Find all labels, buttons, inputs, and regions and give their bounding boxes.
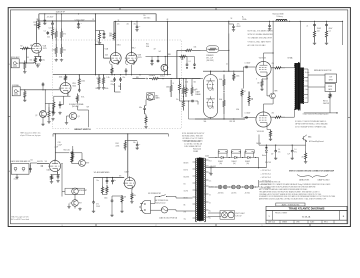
svg-text:100k: 100k: [236, 76, 240, 78]
ground R8: [23, 99, 26, 102]
svg-text:250p: 250p: [111, 81, 114, 83]
node bus2 junctions: [115, 21, 116, 22]
bias cell 2: [229, 186, 243, 188]
svg-text:2: 2: [156, 225, 157, 227]
capacitor C41 filter: [291, 145, 293, 150]
wire bias feed: [209, 186, 217, 188]
svg-text:100n: 100n: [104, 198, 108, 200]
resistor R4: [55, 29, 57, 41]
svg-text:220k: 220k: [116, 145, 120, 147]
svg-text:R51 100k: R51 100k: [64, 150, 70, 152]
svg-text:22n: 22n: [176, 99, 179, 101]
wire input ch1: [20, 62, 35, 64]
bias cell 3: [243, 186, 256, 188]
svg-text:820 1W: 820 1W: [230, 121, 236, 123]
svg-text:0.1 600V: 0.1 600V: [245, 63, 251, 65]
svg-text:TREBLE: TREBLE: [149, 75, 156, 77]
wire bus2 riser: [113, 21, 115, 31]
svg-text:100k: 100k: [134, 55, 137, 57]
svg-text:20u: 20u: [302, 157, 305, 159]
svg-text:415 VDC: 415 VDC: [210, 166, 217, 168]
svg-text:47k: 47k: [63, 34, 66, 36]
svg-text:CHOKE: CHOKE: [256, 143, 261, 145]
ground snubber1: [313, 42, 316, 45]
svg-text:R40: R40: [146, 44, 149, 46]
svg-text:VTVM. B+ WILL VARY WITH: VTVM. B+ WILL VARY WITH: [248, 40, 272, 43]
wire trem chain vertical: [72, 146, 74, 162]
transformer T2 secondary winding: [303, 68, 304, 104]
dashed enclosure preamp: [52, 40, 181, 129]
node bus1 junctions: [44, 13, 45, 14]
capacitor C3 filter: [78, 21, 80, 23]
capacitor C21: [57, 174, 60, 179]
capacitor C33: [245, 66, 248, 69]
transformer T1 primary winding: [197, 158, 204, 221]
svg-text:10n: 10n: [97, 180, 100, 182]
wire V1B plate: [65, 80, 67, 82]
tube V1A: [32, 43, 42, 53]
wire tone bottom: [144, 112, 146, 114]
ground R16: [97, 87, 100, 90]
svg-text:600 1W: 600 1W: [37, 161, 43, 163]
resistor R18 treble: [149, 78, 162, 80]
resistor R6 grid leak: [24, 61, 26, 71]
capacitor C23: [29, 165, 32, 173]
svg-text:3: 3: [62, 225, 63, 227]
svg-text:220k: 220k: [52, 34, 56, 36]
capacitor C34: [245, 116, 248, 119]
svg-text:BRIGHT SWITCH: BRIGHT SWITCH: [74, 129, 91, 131]
svg-text:650V: 650V: [329, 28, 333, 30]
svg-text:10n: 10n: [114, 180, 117, 182]
transistor Q6 trem LDR: [161, 64, 168, 71]
ground R13b: [47, 121, 50, 124]
potentiometer trem depth: [179, 55, 187, 57]
transistor Q5 bias: [304, 135, 307, 142]
fuse F1: [161, 207, 167, 213]
tube V6 phase inverter envelope: [204, 75, 218, 118]
svg-text:1N4007: 1N4007: [232, 161, 237, 163]
svg-text:5W - 1uF: 5W - 1uF: [206, 57, 213, 59]
resistor R31: [72, 149, 74, 162]
footswitch jack box: [11, 164, 29, 175]
resistor R11 220k: [78, 75, 80, 89]
resistor R47 cathode V5: [266, 127, 268, 130]
capacitor C9 filter: [136, 21, 138, 25]
svg-text:V3: V3: [45, 161, 47, 163]
svg-text:4n7: 4n7: [154, 49, 157, 51]
resistor R5b: [60, 44, 62, 57]
resistor R30: [121, 195, 123, 204]
svg-text:SW POWER/STBY: SW POWER/STBY: [148, 193, 161, 195]
svg-text:VOL: VOL: [81, 97, 84, 99]
impedance selector box: [325, 74, 337, 83]
svg-text:10n: 10n: [31, 160, 34, 162]
tube V2A: [110, 53, 121, 64]
node tone junction: [183, 96, 184, 97]
ground C8: [43, 22, 46, 25]
svg-text:220k: 220k: [104, 189, 107, 191]
resistor R26: [71, 155, 73, 164]
ground C9: [135, 29, 138, 32]
wire B+1 line: [205, 167, 266, 169]
svg-text:Grn/Yel: Grn/Yel: [184, 191, 189, 193]
svg-text:2.2uF: 2.2uF: [55, 147, 59, 149]
wire ground bus: [53, 133, 168, 135]
loop Q2 feedback: [147, 93, 155, 100]
svg-text:Brn: Brn: [184, 184, 186, 186]
svg-text:1.0: 1.0: [278, 149, 280, 151]
title block company box: [276, 203, 305, 206]
svg-text:C3 47u 450V: C3 47u 450V: [75, 19, 86, 21]
svg-text:100k: 100k: [219, 79, 222, 81]
capacitor C35: [269, 21, 271, 24]
svg-text:6.3V #47: 6.3V #47: [236, 216, 242, 218]
title block main box: [266, 206, 347, 210]
capacitor C7b: [52, 108, 55, 117]
svg-text:0.1: 0.1: [226, 64, 228, 66]
capacitor C26: [92, 201, 95, 204]
resistor R43 snubber1: [313, 26, 315, 42]
wire plate rail ch2: [53, 74, 96, 76]
svg-text:OHM 5W: OHM 5W: [323, 103, 330, 105]
jack FS1: [14, 167, 17, 170]
svg-text:47u: 47u: [294, 151, 297, 153]
svg-text:CHKD: CHKD: [296, 222, 300, 224]
capacitor C50 drop1: [186, 57, 188, 64]
wire V5 cathode: [131, 189, 133, 192]
ground ch1 dividers: [55, 59, 58, 62]
wire PI outputs: [223, 74, 225, 76]
svg-text:0.1: 0.1: [329, 30, 331, 32]
resistor R28 phase: [106, 185, 108, 195]
ground R50: [98, 42, 101, 45]
wire mid vertical: [166, 21, 168, 74]
resistor R34 PI plate lower: [223, 93, 225, 115]
resistor R48 load: [329, 93, 331, 99]
potentiometer treble wiper: [145, 78, 147, 79]
svg-text:1500V: 1500V: [317, 28, 321, 30]
resistor R1 volume pot: [38, 21, 40, 30]
svg-text:0.1 600V: 0.1 600V: [245, 113, 251, 115]
svg-text:100k: 100k: [219, 99, 222, 101]
wire right vertical: [176, 50, 178, 78]
svg-text:7025: 7025: [138, 57, 142, 59]
svg-text:1k5: 1k5: [30, 60, 33, 62]
resistor R33 PI plate upper: [223, 75, 225, 91]
wire trem column: [61, 164, 63, 192]
ground R6: [23, 71, 26, 74]
border frame inner: [10, 10, 347, 224]
lamp housing: [228, 212, 234, 218]
capacitor C25 filter: [136, 142, 138, 145]
ground R23: [144, 125, 147, 128]
wire volume to switch: [77, 106, 79, 110]
wire secondary bus: [307, 69, 309, 103]
input jack J1: [11, 59, 19, 68]
wire V1A grid: [27, 47, 31, 49]
svg-text:V6: V6: [195, 89, 197, 91]
resistor R5: [60, 29, 62, 41]
svg-text:PROJECT / SHEET: PROJECT / SHEET: [275, 212, 287, 214]
potentiometer reverb wiper: [41, 165, 43, 166]
svg-text:7025: 7025: [72, 85, 76, 87]
svg-text:AC LINE 110-120 VAC.: AC LINE 110-120 VAC.: [248, 44, 267, 47]
capacitor C13 68n: [143, 106, 146, 113]
svg-text:1N4007: 1N4007: [218, 161, 223, 163]
wire volume feed: [38, 14, 40, 21]
svg-text:R48 10: R48 10: [323, 101, 328, 103]
svg-text:V5 EL84: V5 EL84: [257, 131, 264, 133]
transistor Q2 cathode switch: [40, 111, 47, 118]
ground V4 cathode: [260, 88, 263, 91]
resistor R50 divider: [96, 30, 100, 32]
wire PI tail: [223, 114, 225, 119]
svg-text:22u: 22u: [123, 77, 126, 79]
resistor R22 lower: [182, 97, 184, 111]
svg-text:82k: 82k: [96, 88, 99, 90]
svg-text:B: B: [9, 64, 10, 66]
resistor R4b: [55, 44, 57, 57]
wire tremolo injection: [146, 56, 180, 58]
svg-text:REV 2: REV 2: [324, 222, 328, 224]
wire V3 cathode network: [56, 172, 58, 175]
ground C14: [102, 36, 105, 39]
svg-text:-35 VDC: -35 VDC: [245, 193, 250, 195]
svg-text:SPEED/INT: SPEED/INT: [79, 190, 87, 192]
wire trem connects: [62, 190, 65, 192]
wire B+ to PI: [228, 21, 230, 24]
svg-text:1: 1: [262, 225, 263, 227]
cathode structures V2: [110, 60, 120, 65]
resistor R35 100k: [233, 72, 235, 81]
pilot lamp PL1: [222, 212, 228, 218]
svg-text:1M: 1M: [34, 25, 37, 27]
title block row3: [266, 220, 347, 223]
svg-text:10k: 10k: [110, 35, 113, 37]
wire switch cluster: [42, 117, 44, 123]
wire T1 primary stubs: [193, 161, 197, 163]
svg-text:V2.08-1A: V2.08-1A: [302, 216, 311, 219]
wire V1B cathode: [67, 94, 69, 97]
svg-text:2x: 2x: [307, 26, 309, 28]
svg-text:(SW OFF): (SW OFF): [206, 60, 214, 62]
svg-text:22n: 22n: [127, 24, 130, 26]
wire PI to V4 grid: [244, 66, 256, 68]
svg-text:470: 470: [272, 113, 275, 115]
svg-text:1uF: 1uF: [271, 154, 274, 156]
resistor R2 grid stopper: [20, 47, 31, 49]
svg-text:47u: 47u: [278, 151, 281, 153]
trem intensity loop box: [65, 188, 85, 194]
svg-text:47u 450V: 47u 450V: [47, 16, 53, 18]
capacitor C40 filter: [275, 145, 277, 150]
cathode loop V1B: [59, 96, 71, 104]
svg-text:NORMAL: NORMAL: [12, 84, 19, 87]
svg-text:1F: 1F: [92, 19, 94, 21]
ground V5: [130, 201, 133, 204]
tube V3A reverb driver: [49, 160, 60, 171]
capacitor C11 slope: [113, 77, 116, 82]
wire trem top link: [125, 139, 137, 141]
wire OT secondary taps: [304, 68, 308, 70]
wire ch1 to V2 junction: [95, 14, 97, 75]
triode A internals: [206, 78, 214, 91]
resistor R44 snubber2: [325, 26, 327, 42]
svg-text:185V 50V: 185V 50V: [265, 162, 271, 164]
transformer T2 core: [298, 62, 300, 111]
resistor R37 grid: [178, 81, 180, 94]
svg-text:NOTE: REVERB DEPTH SET BY: NOTE: REVERB DEPTH SET BY: [182, 133, 204, 135]
wire Q6 out: [163, 71, 165, 75]
svg-text:GM.1: GM.1: [117, 45, 121, 47]
rectifier cell 1: [218, 150, 227, 153]
svg-text:250p: 250p: [111, 84, 115, 86]
svg-text:0.02: 0.02: [97, 41, 100, 43]
svg-text:100k: 100k: [105, 88, 109, 90]
svg-text:1N4007: 1N4007: [245, 161, 250, 163]
wire to PI grid: [162, 78, 201, 80]
svg-text:GM.2: GM.2: [131, 48, 135, 50]
ground C26: [92, 210, 95, 213]
svg-text:NFB: NFB: [275, 91, 278, 93]
resistor R29 V5 cathode: [131, 192, 133, 201]
resistor R39 grid2: [185, 85, 187, 98]
svg-text:47n: 47n: [96, 204, 99, 206]
svg-text:INT: INT: [79, 203, 82, 205]
transformer T2 output primary winding: [295, 63, 300, 110]
ground Q2: [41, 123, 44, 126]
svg-text:56k: 56k: [204, 121, 207, 123]
wire V3 plate feed: [54, 134, 56, 160]
svg-text:7025: 7025: [43, 48, 47, 50]
wire standby link: [201, 49, 207, 51]
input jack J2: [12, 87, 20, 96]
svg-text:Q1: Q1: [77, 116, 79, 118]
wire V2A grid: [104, 57, 110, 59]
svg-text:+ 415 VDC B+1: + 415 VDC B+1: [261, 170, 272, 172]
svg-text:Blocks: Blocks: [262, 155, 266, 157]
wire heater run: [208, 212, 221, 214]
wire B+ second bus: [114, 20, 343, 22]
wire cap bank feed: [259, 144, 306, 146]
svg-text:+ 310 VDC B+4: + 310 VDC B+4: [261, 181, 272, 183]
capacitor C12: [119, 77, 122, 82]
svg-text:47u: 47u: [237, 24, 240, 26]
transistor Q3 reverb recovery: [79, 160, 86, 167]
svg-text:chassis: chassis: [14, 179, 19, 181]
resistor R27 phase: [101, 186, 103, 195]
bias cell 1: [216, 186, 229, 188]
wire B+ to power tubes: [272, 21, 274, 53]
resistor R3: [51, 25, 53, 39]
tube V2B: [126, 53, 137, 64]
capacitor C36 snubber1: [314, 21, 316, 24]
svg-text:290BX: 290BX: [193, 151, 199, 153]
wire input ch2: [20, 89, 60, 91]
ground C25: [136, 147, 139, 150]
svg-text:Hammond 194B: Hammond 194B: [273, 14, 284, 16]
svg-text:22n: 22n: [117, 24, 120, 26]
resistor R14 dropping: [113, 31, 115, 41]
wire V2B plate riser: [131, 21, 133, 53]
svg-text:BRILLIANT: BRILLIANT: [11, 56, 20, 59]
ground V3 cathode: [50, 181, 53, 184]
svg-text:4F: 4F: [167, 19, 169, 21]
svg-text:C1: C1: [44, 31, 46, 33]
ground HT center tap: [210, 168, 212, 173]
capacitor C22 reverb send: [70, 152, 74, 155]
svg-text:82k: 82k: [97, 78, 100, 80]
svg-text:100k: 100k: [59, 77, 63, 79]
ground C27: [110, 214, 113, 217]
ground C30: [232, 29, 235, 32]
svg-text:Gry: Gry: [184, 219, 187, 221]
border frame outer: [8, 8, 350, 227]
svg-text:+ 345 VDC B+3: + 345 VDC B+3: [261, 177, 272, 179]
svg-text:2x325: 2x325: [205, 156, 209, 158]
capacitor C14: [103, 32, 106, 37]
wire grid branch down: [44, 90, 46, 111]
wire R31 to pots: [72, 163, 74, 165]
ground V5 cathode: [269, 138, 272, 141]
svg-text:0.1: 0.1: [189, 61, 191, 63]
resistor R36: [241, 89, 243, 98]
resistor R25 cathode V3: [50, 175, 52, 181]
svg-text:V4 EL84: V4 EL84: [259, 58, 266, 60]
svg-text:Red: Red: [209, 161, 212, 163]
wire OT primary bottom: [285, 116, 294, 118]
capacitor C30 B+ filter: [232, 25, 235, 29]
phase shift network: [106, 178, 109, 185]
wire selector feeds: [308, 74, 325, 76]
resistor R8 grid leak ch2: [24, 90, 26, 99]
svg-text:0.02: 0.02: [47, 37, 50, 39]
wire plate rail mid: [96, 74, 172, 76]
resistor R12 cathode ch2: [53, 99, 55, 111]
resistor R23: [145, 115, 147, 125]
resistor R21: [191, 85, 193, 96]
svg-text:Brn/Yel: Brn/Yel: [184, 170, 189, 172]
svg-text:-55 VDC: -55 VDC: [231, 193, 236, 195]
capacitor C27: [111, 199, 114, 202]
resistor R45 bias: [305, 152, 307, 161]
svg-text:2n2: 2n2: [159, 51, 162, 53]
svg-text:B: B: [173, 83, 174, 85]
wire primary to T1: [175, 197, 177, 199]
ground ch2 cathode: [52, 112, 55, 115]
svg-text:1.5k: 1.5k: [107, 77, 110, 79]
pilot box: [220, 211, 235, 220]
wire reverb links: [74, 152, 82, 154]
ground R30: [120, 210, 123, 213]
wire feed riser: [258, 135, 260, 146]
ground R17: [102, 87, 105, 90]
wire HT to rectifier: [209, 157, 217, 159]
svg-text:250k: 250k: [185, 82, 188, 84]
svg-text:PILOT LIGHT: PILOT LIGHT: [236, 213, 245, 215]
triode B internals: [206, 96, 214, 108]
resistor R20: [182, 85, 184, 96]
svg-text:47k: 47k: [134, 195, 137, 197]
svg-text:250k: 250k: [166, 87, 170, 89]
svg-text:3F: 3F: [118, 20, 120, 22]
svg-text:Blu: Blu: [209, 211, 211, 213]
wire PI plate line: [203, 70, 244, 72]
wire OT primary top: [285, 67, 294, 69]
wire PI left components: [201, 78, 204, 80]
svg-text:130: 130: [257, 83, 260, 85]
